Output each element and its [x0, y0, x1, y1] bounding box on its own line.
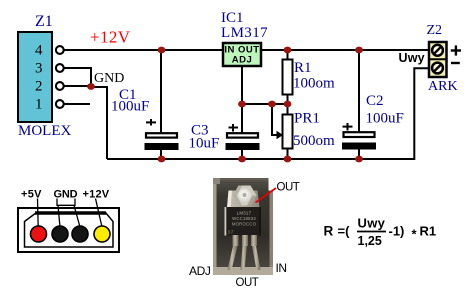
wire C3 to ground — [241, 149, 243, 159]
junction dot wiper — [268, 101, 276, 108]
wire R1 bottom lead — [287, 94, 289, 104]
wire PR1 wiper — [272, 104, 279, 135]
junction dot +12V/C2 — [355, 47, 363, 54]
svg-text:1,25: 1,25 — [358, 234, 382, 248]
svg-text:*: * — [412, 227, 418, 242]
junction dot +12V/R1 — [284, 47, 292, 54]
GND bracket — [57, 199, 75, 206]
svg-text:IC1: IC1 — [221, 10, 244, 26]
formula R=(Uwy/1,25 -1)*R1 — [324, 216, 437, 249]
junction dot +12V/C1 — [158, 47, 166, 54]
wire C2 branch — [358, 50, 360, 132]
svg-text:ARK: ARK — [428, 79, 458, 94]
lead GND to pin2 — [58, 205, 60, 227]
svg-text:=(: =( — [338, 224, 351, 239]
svg-text:ADJ: ADJ — [189, 264, 211, 278]
wire PR1 bottom lead — [287, 148, 289, 159]
terminal screw top — [432, 45, 443, 56]
svg-text:LM317: LM317 — [221, 25, 268, 41]
svg-text:1: 1 — [35, 97, 43, 113]
svg-text:ADJ: ADJ — [232, 55, 253, 66]
svg-text:100uF: 100uF — [111, 99, 149, 115]
wire pin2 stub — [62, 85, 92, 87]
TO-220 legs — [233, 235, 239, 246]
svg-text:100om: 100om — [293, 76, 335, 92]
svg-text:R: R — [324, 224, 334, 239]
wire C1 branch — [160, 50, 162, 134]
pin +5V red — [31, 226, 47, 242]
pin GND black 1 — [52, 226, 68, 242]
pin 3 circle — [56, 64, 64, 72]
wire ADJ horizontal — [242, 103, 288, 105]
capacitor C2 — [342, 123, 376, 150]
wire C1 to ground — [160, 149, 162, 159]
svg-text:Uwy: Uwy — [358, 216, 386, 231]
svg-text:2: 2 — [35, 79, 43, 95]
junction dot C3/ground — [238, 156, 246, 163]
pin 2 circle — [56, 82, 64, 90]
connector Z2 body — [429, 42, 447, 77]
svg-text:-1): -1) — [389, 224, 405, 239]
junction dot ADJ/C3 — [238, 101, 246, 108]
wire PR1 top lead — [287, 104, 289, 115]
svg-text:MOLEX: MOLEX — [18, 123, 71, 139]
wire ADJ branch — [241, 66, 243, 134]
svg-text:GND: GND — [94, 71, 124, 86]
potentiometer PR1 — [283, 115, 293, 149]
svg-text:Z2: Z2 — [427, 23, 443, 38]
svg-text:MOROCCO: MOROCCO — [232, 222, 257, 227]
arrow OUT to tab — [256, 188, 277, 203]
svg-text:500om: 500om — [293, 133, 335, 149]
svg-text:OUT: OUT — [236, 277, 259, 289]
wire C2 to ground — [358, 149, 360, 159]
white cut for OUT label — [269, 176, 289, 191]
svg-text:+5V: +5V — [21, 189, 42, 201]
svg-text:IN: IN — [276, 261, 287, 275]
capacitor C1 — [145, 119, 179, 150]
svg-text:OUT: OUT — [277, 182, 300, 194]
power connector inner shell — [25, 213, 114, 248]
capacitor C3 — [226, 124, 260, 150]
junction dot R1/PR1 — [284, 101, 292, 108]
connector Z1 body — [18, 32, 52, 122]
lead GND to pin3 — [74, 205, 80, 227]
lead +5V to pin — [37, 199, 40, 228]
TO-220 metal tab — [227, 191, 260, 209]
wire +12V top rail — [62, 49, 429, 51]
mounting nut — [233, 186, 257, 206]
wire R1 top lead — [287, 50, 289, 60]
LM317 photo — [213, 178, 273, 275]
junction dot C1/ground — [158, 156, 166, 163]
svg-text:WCC18834: WCC18834 — [232, 216, 256, 221]
TO-220 body — [225, 207, 262, 236]
svg-text:C2: C2 — [366, 93, 384, 109]
power connector drawing outer shell — [18, 208, 119, 252]
svg-text:R1: R1 — [420, 224, 437, 239]
pin +12V yellow — [94, 226, 110, 242]
terminal screw bottom — [432, 63, 443, 74]
svg-text:+12V: +12V — [90, 28, 131, 47]
lead +12V to pin — [96, 199, 103, 228]
svg-text:100uF: 100uF — [366, 111, 404, 127]
svg-text:3: 3 — [35, 61, 43, 77]
wire ground rail — [107, 68, 430, 159]
wire pin1 stub — [62, 103, 90, 105]
svg-text:10uF: 10uF — [189, 136, 220, 152]
svg-text:4: 4 — [35, 43, 43, 59]
pin 4 circle — [56, 46, 64, 54]
svg-text:PR1: PR1 — [294, 111, 320, 127]
pin 1 circle — [56, 100, 64, 108]
svg-text:Z1: Z1 — [35, 13, 53, 30]
pin GND black 2 — [72, 226, 88, 242]
resistor R1 — [283, 60, 293, 95]
junction dot PR1/ground — [284, 156, 292, 163]
junction dot C2/ground — [355, 156, 363, 163]
svg-text:Uwy: Uwy — [399, 51, 425, 65]
plus terminal sign — [451, 45, 461, 55]
svg-text:R1: R1 — [294, 60, 312, 76]
svg-text:LM317: LM317 — [237, 211, 252, 216]
wire pin3 to GND junction — [62, 68, 91, 87]
junction dot GND — [87, 83, 95, 90]
regulator IC1 LM317 body — [223, 43, 261, 66]
wire GND junction to ground rail — [91, 87, 107, 159]
power connector inner top thick edge — [35, 211, 106, 215]
minus terminal sign — [451, 62, 460, 64]
connector Z2 divider — [428, 58, 447, 60]
